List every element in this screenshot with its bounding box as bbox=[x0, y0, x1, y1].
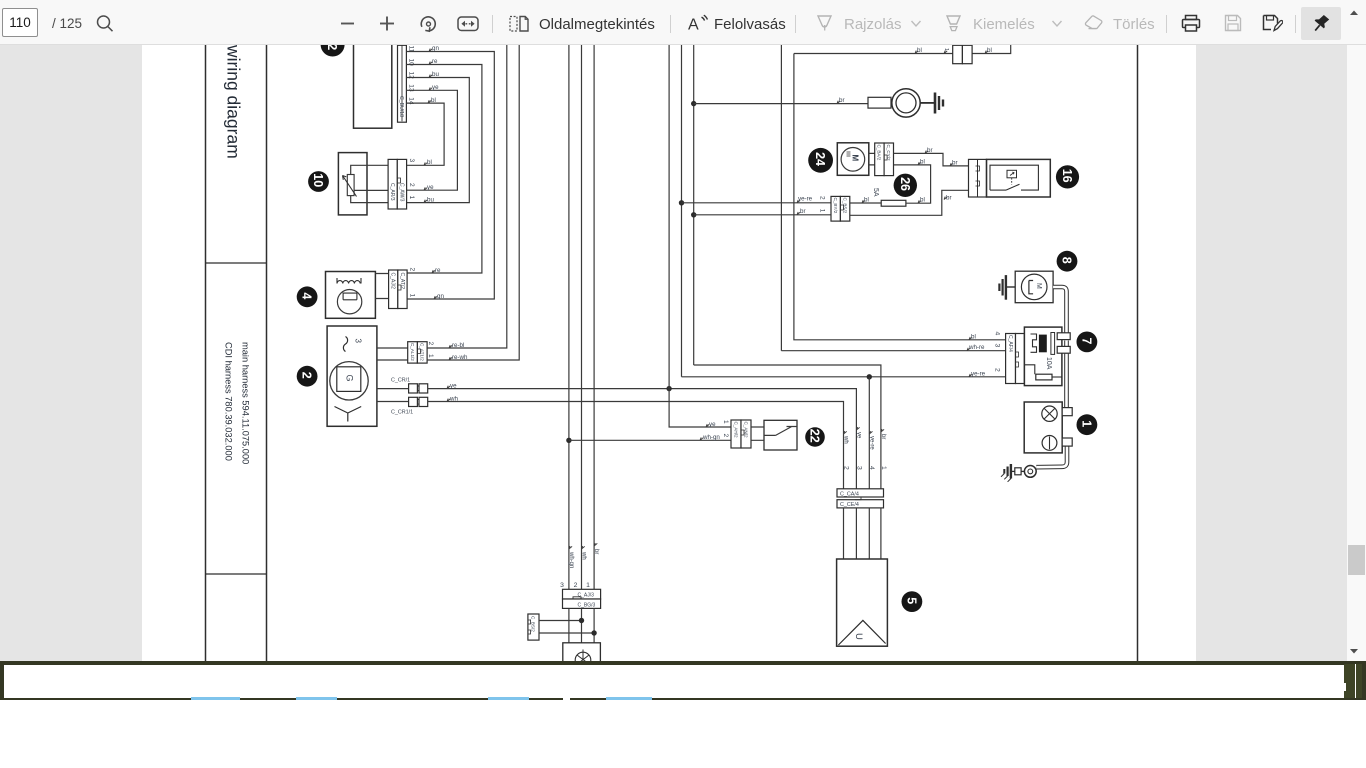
CDI unit box (component 12, clipped) bbox=[354, 30, 392, 128]
sensor box (component 10) bbox=[338, 153, 367, 215]
wires C_BG/3 to ignition coil bbox=[569, 608, 594, 642]
voltage regulator box (component 5) bbox=[837, 559, 888, 646]
wire br to C_CA/4 bbox=[694, 365, 881, 489]
svg-text:re-wh: re-wh bbox=[452, 354, 468, 361]
ground ring terminal bbox=[1015, 466, 1036, 478]
svg-text:C_BA/2: C_BA/2 bbox=[877, 145, 882, 161]
component marker 24 bbox=[808, 148, 833, 173]
svg-text:5: 5 bbox=[904, 597, 918, 604]
wh-re bus bbox=[780, 40, 782, 351]
wire br motor to relay bbox=[894, 147, 969, 167]
component marker 16 bbox=[1056, 165, 1079, 188]
br bus bbox=[593, 40, 599, 589]
left title-block column line bbox=[205, 45, 207, 661]
svg-text:C_AR/3: C_AR/3 bbox=[389, 183, 395, 201]
svg-text:G: G bbox=[344, 375, 354, 382]
spark plug symbol (clipped) bbox=[575, 650, 591, 668]
svg-text:10: 10 bbox=[311, 173, 325, 187]
battery cable: battery minus to ground ring bbox=[1036, 446, 1067, 467]
label br bbox=[880, 429, 886, 439]
pin 11 bbox=[408, 46, 415, 53]
connector C_BY/2 / C_BS/2 bbox=[831, 196, 850, 221]
svg-text:2: 2 bbox=[574, 582, 578, 589]
connector C_CE/4 bbox=[837, 497, 884, 508]
relay connector block bbox=[969, 159, 987, 197]
svg-text:7: 7 bbox=[1079, 338, 1093, 345]
wire bl: C_BU/18 pin14 to C_AW/3 pin3 bbox=[406, 97, 444, 166]
sensor circle with float lever bbox=[1021, 274, 1047, 300]
svg-text:4: 4 bbox=[994, 332, 1001, 336]
AC symbol and 3 bbox=[343, 337, 362, 352]
pin 1 bbox=[408, 196, 415, 200]
svg-text:re-bl: re-bl bbox=[452, 342, 464, 349]
wire bl to regulator pin4 bbox=[794, 54, 1006, 341]
pin 2 bbox=[574, 582, 578, 589]
svg-text:main harness 594.11.075.000: main harness 594.11.075.000 bbox=[241, 342, 251, 464]
svg-text:gn: gn bbox=[437, 293, 444, 300]
svg-text:C_AT1/2: C_AT1/2 bbox=[420, 343, 425, 361]
regulator box (component 7) bbox=[1024, 327, 1062, 386]
component marker 12 bbox=[321, 33, 345, 57]
pin 2 bbox=[819, 196, 826, 200]
svg-text:3: 3 bbox=[560, 582, 564, 589]
wire bl fuse left bbox=[850, 197, 881, 204]
inner frame left line bbox=[266, 45, 268, 661]
sensor internal wiring bbox=[351, 165, 388, 202]
connector C_AJ/2 / C_AT/2 bbox=[389, 270, 407, 309]
connector C_BA/2 / C_CY/2 bbox=[869, 143, 894, 176]
svg-text:C_AW/3: C_AW/3 bbox=[398, 183, 404, 202]
wire br fuse connector to relay bbox=[850, 190, 969, 215]
ye-re bus bbox=[681, 40, 683, 377]
generator stubs bbox=[377, 348, 409, 402]
svg-text:C_AT/2: C_AT/2 bbox=[399, 273, 405, 290]
battery spade terminals bbox=[1062, 408, 1072, 447]
wire re: C_BU/18 pin10 to C_AJ/2 pin2 bbox=[406, 58, 482, 273]
regulator U symbol bbox=[838, 620, 885, 645]
generator G circle bbox=[330, 362, 368, 400]
component marker 4 bbox=[297, 286, 318, 307]
svg-text:24: 24 bbox=[813, 152, 827, 166]
pin 2 bbox=[408, 183, 415, 187]
connector C_CR/1 bbox=[391, 378, 428, 394]
junction ye-re bbox=[679, 200, 684, 205]
svg-text:br: br bbox=[880, 434, 886, 439]
motor M circle bbox=[841, 148, 865, 172]
junction br fuse bbox=[691, 212, 696, 217]
label ye-re bbox=[868, 431, 874, 450]
svg-text:wh-gn: wh-gn bbox=[702, 434, 720, 441]
svg-text:2: 2 bbox=[427, 342, 434, 346]
wire ye-re to regulator pin2 bbox=[682, 370, 1006, 377]
fuse 5A bbox=[872, 188, 906, 206]
svg-text:bl: bl bbox=[431, 97, 436, 104]
wire bl top with inline connector bbox=[794, 40, 1011, 54]
regulator diode element bbox=[1031, 333, 1055, 355]
label gn bbox=[434, 293, 444, 300]
horn terminal block bbox=[868, 97, 891, 108]
svg-text:M: M bbox=[1035, 283, 1042, 289]
sensor box (component 8) bbox=[1015, 271, 1053, 303]
title: wiring diagram bbox=[224, 44, 244, 159]
connector C_CR1/1 bbox=[391, 397, 428, 415]
wire br to horn bbox=[694, 97, 868, 104]
svg-text:br: br bbox=[593, 549, 599, 554]
subtitle: main harness bbox=[241, 342, 251, 464]
regulator spade terminals bbox=[1057, 333, 1070, 353]
pin 3 bbox=[560, 582, 564, 589]
junction wh-gn to switch bbox=[566, 438, 571, 443]
wire ye from C_CR/1 across page bbox=[428, 382, 857, 488]
svg-text:1: 1 bbox=[943, 48, 949, 51]
wire wh from C_CR1/1 across page bbox=[428, 395, 844, 489]
component marker 10 bbox=[308, 171, 329, 192]
connector C_AJ/3 bbox=[563, 589, 601, 599]
component marker 8 bbox=[1057, 251, 1078, 272]
pin 14 bbox=[408, 97, 415, 105]
connector C_CA/4 bbox=[837, 489, 884, 498]
wire br to fuse connector bbox=[694, 208, 831, 215]
label ye bbox=[424, 184, 434, 191]
pin 1 bbox=[880, 466, 887, 470]
pin 1 bbox=[819, 209, 826, 213]
svg-text:wh: wh bbox=[581, 551, 587, 560]
pin 2 bbox=[722, 434, 729, 438]
svg-text:26: 26 bbox=[898, 177, 912, 191]
svg-text:1: 1 bbox=[427, 354, 434, 358]
relay internal frame and switch bbox=[990, 165, 1038, 190]
svg-text:bl: bl bbox=[427, 159, 432, 166]
svg-text:10A: 10A bbox=[1045, 357, 1052, 370]
battery minus terminal bbox=[1042, 436, 1057, 451]
svg-text:wh: wh bbox=[843, 435, 849, 444]
pin 1 bbox=[409, 294, 416, 298]
svg-text:bl: bl bbox=[920, 158, 925, 165]
spark plug cap circle bbox=[337, 290, 361, 314]
junction ye bus bbox=[666, 386, 671, 391]
wire wh-gn to switch 22 bbox=[569, 434, 731, 441]
svg-text:14: 14 bbox=[408, 97, 415, 105]
svg-text:br: br bbox=[839, 97, 845, 104]
battery cable: component 8 to regulator spade bbox=[1053, 287, 1066, 333]
connector C_AH/2 / C_AN/2 bbox=[731, 420, 751, 448]
svg-text:3: 3 bbox=[994, 344, 1001, 348]
switch box (component 22) bbox=[764, 420, 797, 450]
svg-text:2: 2 bbox=[722, 434, 729, 438]
fuse 10A bbox=[1024, 357, 1062, 380]
svg-text:bl: bl bbox=[864, 197, 869, 204]
wire ye-re to fuse connector bbox=[682, 195, 832, 203]
thermistor symbol bbox=[343, 175, 357, 197]
svg-text:1: 1 bbox=[409, 294, 416, 298]
pin 2 bbox=[994, 368, 1001, 372]
junction ye-re to C_CA/4 bbox=[867, 374, 872, 379]
wire to wh bus bbox=[539, 620, 582, 622]
svg-text:22: 22 bbox=[808, 429, 822, 443]
spark plug box (clipped) bbox=[563, 643, 601, 668]
battery cable: regulator to battery plus bbox=[1064, 354, 1069, 408]
svg-text:3: 3 bbox=[354, 339, 363, 344]
svg-text:A: A bbox=[688, 17, 699, 34]
pin 2 bbox=[409, 268, 416, 272]
component marker 22 bbox=[805, 427, 825, 447]
pin 3 bbox=[855, 466, 862, 470]
pin 3 bbox=[408, 159, 415, 163]
svg-text:2: 2 bbox=[819, 196, 826, 200]
svg-text:C_BS/2: C_BS/2 bbox=[531, 616, 536, 632]
svg-text:ye: ye bbox=[709, 421, 716, 428]
svg-text:bu: bu bbox=[432, 71, 439, 78]
svg-text:C_BS/2: C_BS/2 bbox=[842, 198, 847, 214]
pin 1 bbox=[427, 354, 434, 358]
wire bu: C_BU/18 pin12 to C_AW/3 pin1 bbox=[406, 71, 469, 203]
svg-text:bu: bu bbox=[427, 196, 434, 203]
svg-text:1: 1 bbox=[586, 582, 590, 589]
pin 2 bbox=[427, 342, 434, 346]
svg-text:wh-gn: wh-gn bbox=[568, 551, 574, 568]
svg-text:ye-re: ye-re bbox=[868, 436, 874, 450]
ye branch to switch 22 bbox=[669, 389, 731, 428]
svg-text:C_BG/3: C_BG/3 bbox=[578, 602, 596, 608]
svg-text:1: 1 bbox=[722, 420, 729, 424]
pin 13 bbox=[408, 84, 415, 92]
starter motor box (component 24) bbox=[837, 143, 869, 176]
coil stubs to connector bbox=[375, 274, 388, 299]
svg-text:ye: ye bbox=[427, 184, 434, 191]
wire re-bl to upper harness bbox=[427, 40, 507, 349]
component marker 7 bbox=[1077, 332, 1098, 353]
label ye bbox=[856, 427, 862, 439]
battery cable: spade to spade bbox=[1064, 341, 1069, 347]
wire gn: C_BU/18 pin11 to C_AJ/2 pin1 bbox=[406, 45, 494, 299]
frame right line bbox=[1137, 45, 1139, 661]
ye-re branch down to C_CA/4 bbox=[868, 377, 870, 489]
connector C_AL1/2 / C_AT1/2 bbox=[408, 342, 427, 363]
svg-text:3: 3 bbox=[855, 466, 862, 470]
svg-text:C_BU/18: C_BU/18 bbox=[398, 96, 404, 117]
wh bus bbox=[581, 40, 587, 589]
pin 1 bbox=[586, 582, 590, 589]
svg-text:C_AF/4: C_AF/4 bbox=[1007, 335, 1013, 352]
svg-text:gn: gn bbox=[432, 45, 439, 52]
svg-text:wh-re: wh-re bbox=[968, 344, 985, 351]
svg-text:br: br bbox=[946, 194, 952, 201]
connector C_AR/3 / C_AW/3 bbox=[388, 159, 406, 209]
svg-text:C_AJ/3: C_AJ/3 bbox=[578, 593, 595, 599]
component marker 26 bbox=[894, 174, 917, 197]
svg-text:ye-re: ye-re bbox=[971, 370, 986, 377]
wires C_CE/4 to regulator 5 bbox=[844, 508, 881, 559]
svg-text:4: 4 bbox=[300, 292, 314, 299]
svg-text:br: br bbox=[800, 208, 806, 215]
inline connector (bl wire) bbox=[953, 45, 972, 63]
junction br horn bbox=[691, 101, 696, 106]
svg-text:16: 16 bbox=[1060, 169, 1074, 183]
svg-text:br: br bbox=[952, 159, 958, 166]
wire re-wh to upper harness bbox=[427, 40, 519, 361]
wire wh-re to regulator pin3 bbox=[781, 344, 1005, 351]
svg-text:CDI harness 780.39.032.000: CDI harness 780.39.032.000 bbox=[224, 342, 234, 461]
svg-text:1: 1 bbox=[408, 196, 415, 200]
svg-text:bl: bl bbox=[917, 47, 922, 54]
generator box (component 2) bbox=[327, 326, 377, 426]
svg-text:3: 3 bbox=[408, 159, 415, 163]
svg-text:1: 1 bbox=[1079, 420, 1093, 427]
svg-text:bl: bl bbox=[987, 47, 992, 54]
relay box (component 16) bbox=[987, 159, 1051, 197]
svg-text:M: M bbox=[851, 155, 860, 162]
svg-text:ye: ye bbox=[432, 84, 439, 91]
svg-text:2: 2 bbox=[409, 268, 416, 272]
ground (horn) bbox=[920, 93, 943, 114]
connector C_AF/4 bbox=[1006, 334, 1025, 384]
svg-text:re: re bbox=[435, 267, 441, 274]
svg-text:C_AL1/2: C_AL1/2 bbox=[410, 343, 415, 361]
wire ye: C_BU/18 pin13 to C_AW/3 pin2 bbox=[406, 84, 457, 190]
svg-text:C_CE/4: C_CE/4 bbox=[840, 502, 859, 508]
battery plus terminal bbox=[1042, 406, 1057, 421]
battery box (component 1) bbox=[1024, 402, 1062, 453]
svg-text:8: 8 bbox=[1060, 257, 1074, 264]
label re bbox=[432, 267, 441, 274]
label bl bbox=[424, 159, 432, 166]
component marker 5 bbox=[902, 591, 923, 612]
svg-text:ye: ye bbox=[856, 432, 862, 439]
svg-text:wiring diagram: wiring diagram bbox=[224, 45, 244, 159]
wye symbol bbox=[335, 407, 362, 422]
svg-text:ye-re: ye-re bbox=[798, 195, 813, 202]
svg-text:2: 2 bbox=[842, 466, 849, 470]
component marker 2 bbox=[297, 366, 318, 387]
svg-text:C_BY/2: C_BY/2 bbox=[833, 198, 838, 214]
junction wh bbox=[579, 618, 584, 623]
svg-text:C_CA/4: C_CA/4 bbox=[840, 491, 859, 497]
connector C_BG/3 bbox=[563, 597, 601, 609]
wire to br bus bbox=[539, 632, 594, 634]
svg-text:C_AN/2: C_AN/2 bbox=[743, 422, 748, 439]
svg-text:br: br bbox=[927, 147, 933, 154]
junction br bbox=[591, 630, 596, 635]
coil winding symbol bbox=[337, 278, 361, 284]
svg-text:U: U bbox=[853, 633, 864, 640]
svg-text:12: 12 bbox=[325, 45, 339, 50]
svg-text:C_CR1/1: C_CR1/1 bbox=[391, 410, 413, 416]
pin 12 bbox=[408, 72, 415, 80]
pin 4 bbox=[868, 466, 875, 470]
svg-text:bl: bl bbox=[920, 197, 925, 204]
pin 3 bbox=[994, 344, 1001, 348]
pin 2 bbox=[842, 466, 849, 470]
svg-text:2: 2 bbox=[408, 183, 415, 187]
svg-text:ye: ye bbox=[450, 382, 457, 389]
svg-text:re: re bbox=[432, 58, 438, 65]
svg-text:1: 1 bbox=[819, 209, 826, 213]
svg-text:wh: wh bbox=[449, 395, 458, 402]
svg-text:4: 4 bbox=[868, 466, 875, 470]
connector C_BS/2 (plug lead) bbox=[528, 614, 539, 640]
svg-text:C_CY/2: C_CY/2 bbox=[886, 145, 891, 162]
svg-text:5A: 5A bbox=[872, 188, 879, 197]
horn bbox=[892, 89, 920, 117]
svg-text:C_CR/1: C_CR/1 bbox=[391, 378, 410, 384]
svg-text:C_AJ/2: C_AJ/2 bbox=[390, 273, 396, 290]
label bu bbox=[424, 196, 434, 203]
ground (component 8) bbox=[999, 275, 1015, 300]
wh-gn bus bbox=[568, 40, 574, 589]
br bus right bbox=[693, 40, 695, 365]
pin 10 bbox=[408, 59, 415, 67]
title block divider 1 bbox=[206, 262, 267, 264]
pin 1 bbox=[722, 420, 729, 424]
title block divider 2 bbox=[206, 573, 267, 575]
label wh bbox=[843, 431, 849, 444]
connector C_BU/18 bbox=[398, 45, 407, 122]
svg-text:1: 1 bbox=[880, 466, 887, 470]
wire bl fuse right to starter motor bbox=[894, 158, 931, 203]
ye bus vertical bbox=[668, 40, 670, 389]
component marker 1 bbox=[1077, 414, 1098, 435]
svg-text:bl: bl bbox=[971, 333, 976, 340]
pin 4 bbox=[994, 332, 1001, 336]
subtitle: CDI harness bbox=[224, 342, 234, 461]
svg-text:2: 2 bbox=[994, 368, 1001, 372]
ground (battery) bbox=[1001, 464, 1015, 482]
svg-text:C_AH/2: C_AH/2 bbox=[733, 422, 738, 439]
switch contact bbox=[751, 427, 797, 441]
svg-text:2: 2 bbox=[300, 372, 314, 379]
ignition coil box (component 4) bbox=[326, 272, 376, 319]
